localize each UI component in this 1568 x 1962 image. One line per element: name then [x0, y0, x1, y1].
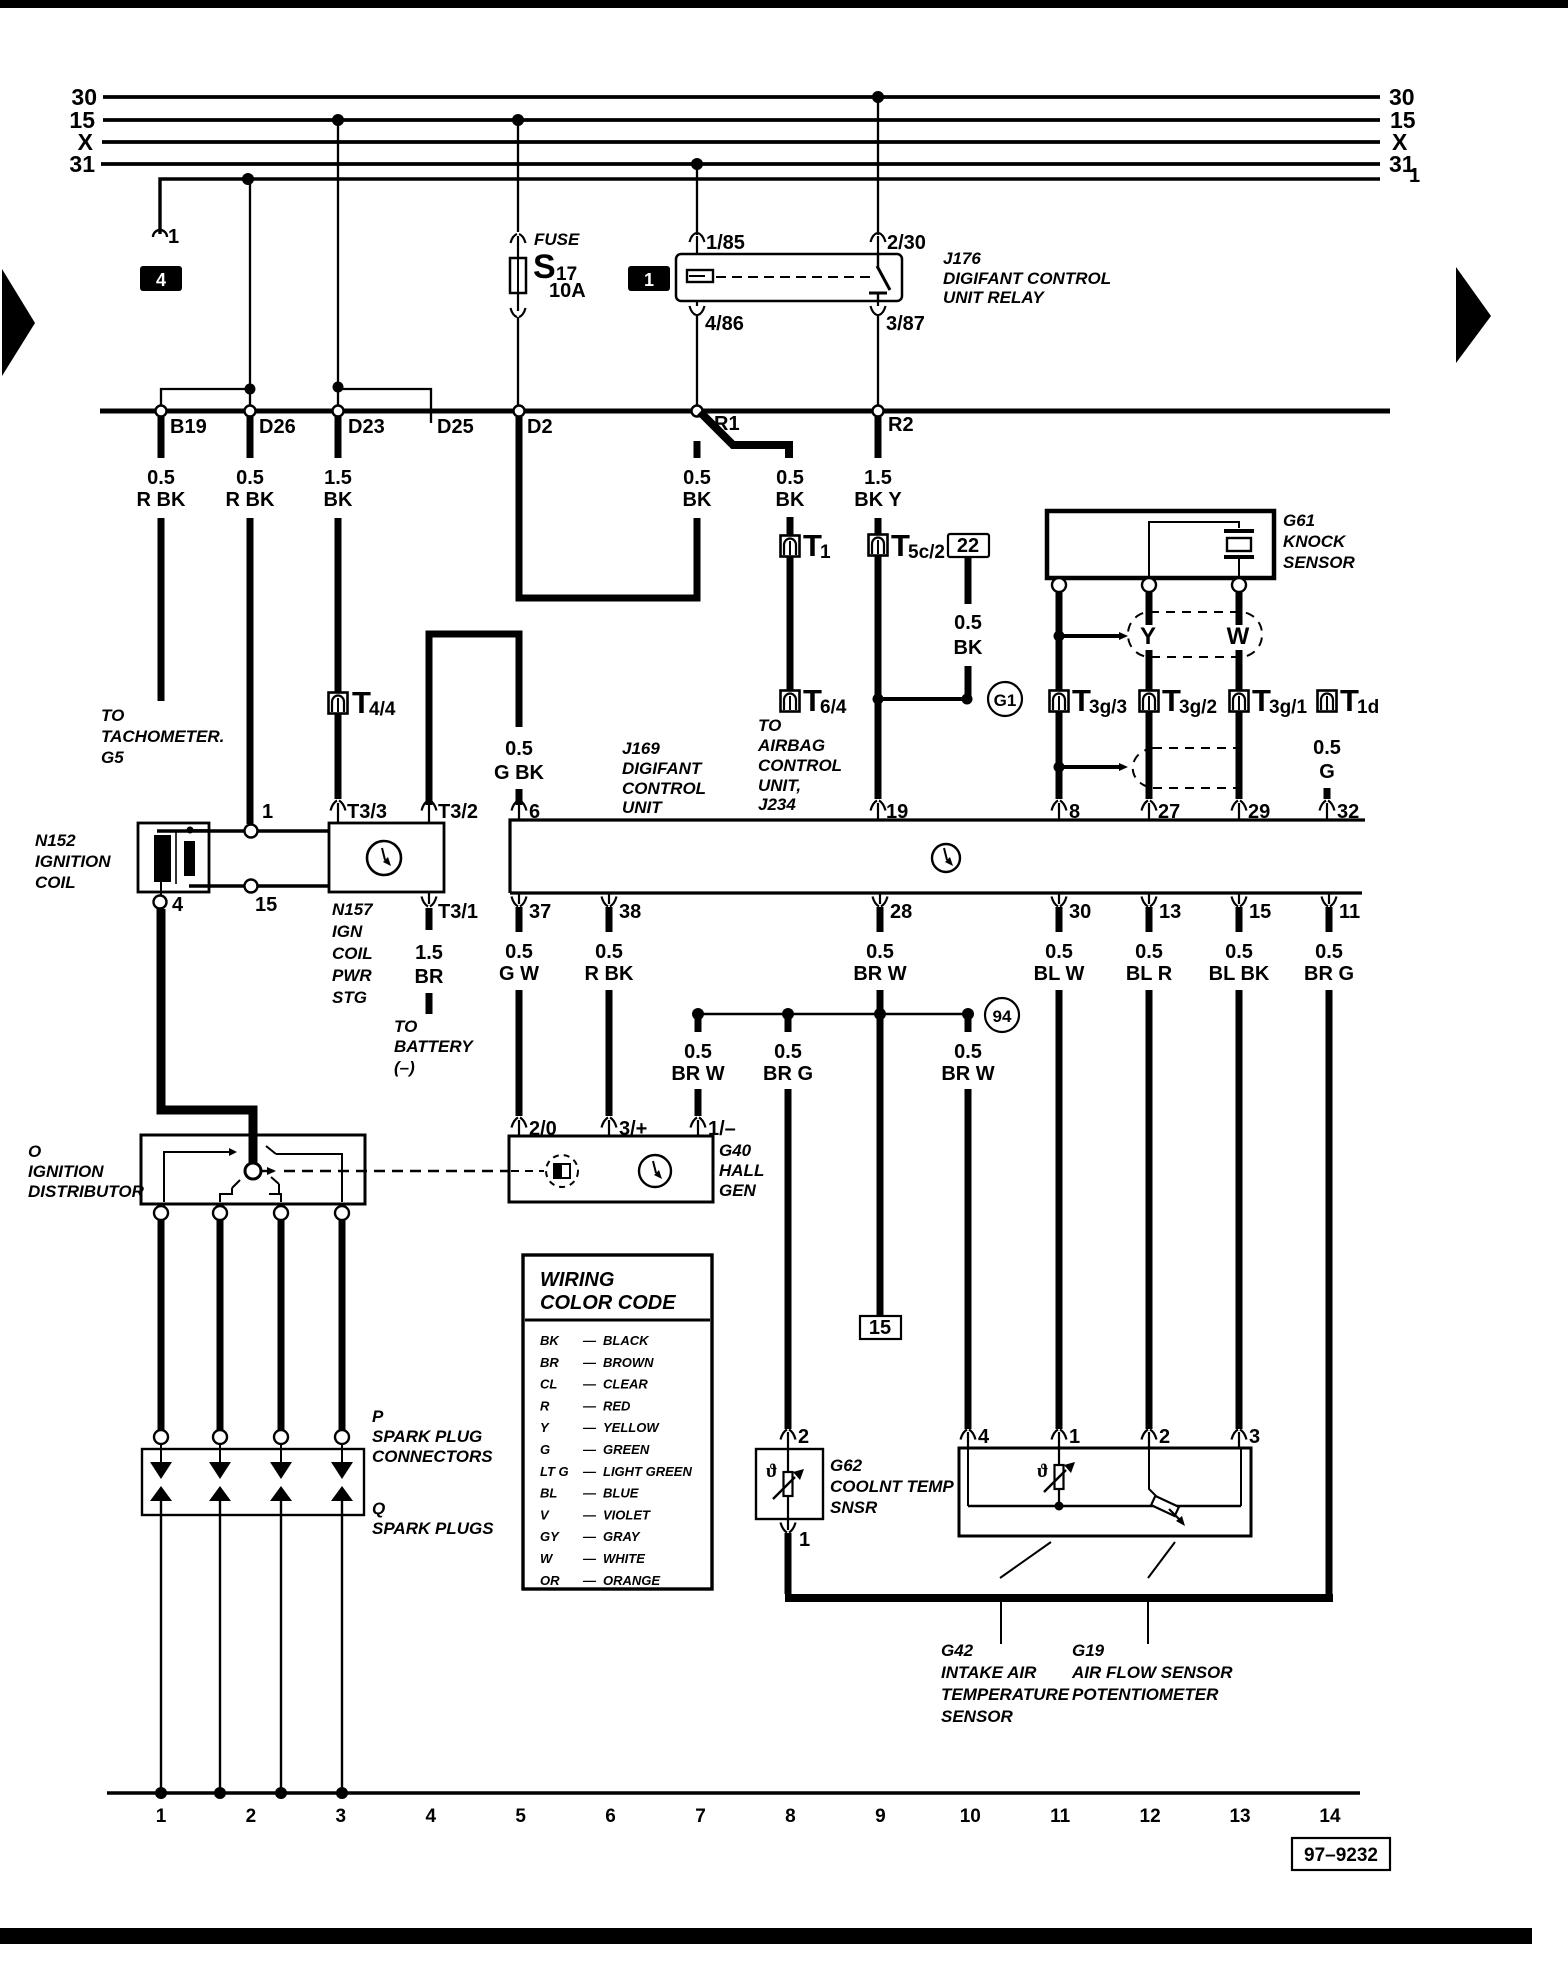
coil primary winding — [154, 835, 171, 882]
svg-text:B19: B19 — [170, 416, 207, 438]
svg-text:P: P — [372, 1407, 384, 1426]
svg-text:32: 32 — [1337, 801, 1359, 823]
svg-text:4: 4 — [425, 1806, 436, 1827]
svg-text:ϑ: ϑ — [1037, 1461, 1048, 1482]
G40 symbol circle — [639, 1155, 671, 1187]
junction on rail 15 at fuse — [512, 114, 524, 126]
track tag 22 — [948, 534, 989, 557]
wire: 94d to G19 4 — [965, 1089, 972, 1429]
wire: T3/1 stub — [426, 908, 433, 930]
svg-text:R: R — [540, 1398, 550, 1413]
wire: T3/1 lower — [426, 993, 433, 1014]
svg-text:1.5: 1.5 — [864, 467, 892, 489]
G62 pin 1 — [781, 1519, 811, 1551]
svg-text:5: 5 — [515, 1806, 526, 1827]
junction shield lower — [1054, 762, 1065, 773]
wire: pin28 to tag15 — [877, 990, 884, 1316]
svg-text:3g/2: 3g/2 — [1179, 697, 1217, 718]
svg-text:11: 11 — [1050, 1806, 1071, 1827]
connector T3g/1 — [1230, 683, 1308, 718]
spark plug connectors P box — [142, 1449, 364, 1515]
svg-text:T3/3: T3/3 — [347, 801, 387, 823]
label 0.5 BK (22) — [954, 612, 983, 659]
terminal D2 — [514, 406, 553, 439]
svg-text:27: 27 — [1158, 801, 1180, 823]
svg-text:YELLOW: YELLOW — [603, 1420, 660, 1435]
leader G19 — [1148, 1542, 1175, 1644]
svg-text:J176: J176 — [943, 249, 981, 268]
svg-text:94: 94 — [993, 1007, 1012, 1026]
svg-text:4/4: 4/4 — [369, 699, 396, 720]
label rail 15 left — [69, 107, 95, 133]
svg-text:N157: N157 — [332, 900, 374, 919]
svg-text:BK: BK — [324, 489, 353, 511]
svg-text:0.5: 0.5 — [505, 738, 533, 760]
svg-text:T3/2: T3/2 — [438, 801, 478, 823]
svg-text:10A: 10A — [549, 280, 586, 302]
svg-text:IGNITION: IGNITION — [35, 852, 111, 871]
relay pin 2/30 — [871, 99, 926, 254]
ECU pin 15 — [1232, 893, 1272, 923]
svg-text:1: 1 — [644, 270, 654, 290]
svg-text:38: 38 — [619, 901, 641, 923]
svg-text:BK: BK — [954, 637, 983, 659]
plug connector arrows d — [331, 1444, 353, 1501]
svg-text:—: — — [582, 1551, 597, 1566]
ECU pin 32 — [1320, 801, 1360, 824]
svg-text:BR G: BR G — [1304, 963, 1354, 985]
junction on rail 31 at relay — [691, 158, 703, 170]
svg-text:0.5: 0.5 — [1313, 737, 1341, 759]
svg-text:0.5: 0.5 — [954, 1041, 982, 1063]
svg-text:29: 29 — [1248, 801, 1270, 823]
label rail 30 left — [71, 84, 97, 110]
distributor inner lead 1 — [164, 1148, 237, 1202]
svg-text:R BK: R BK — [226, 489, 275, 511]
svg-text:GREEN: GREEN — [603, 1442, 650, 1457]
svg-text:BR: BR — [540, 1355, 559, 1370]
svg-text:4: 4 — [156, 270, 166, 290]
terminal R1 — [692, 406, 703, 417]
junction 94-b — [782, 1008, 794, 1032]
svg-text:2/0: 2/0 — [529, 1118, 557, 1140]
ignition distributor O box — [141, 1135, 365, 1204]
svg-text:W: W — [1227, 623, 1250, 650]
junction 94-c — [874, 1008, 886, 1020]
svg-text:GRAY: GRAY — [603, 1529, 641, 1544]
svg-text:V: V — [540, 1507, 550, 1522]
distributor electrode 2 — [220, 1180, 240, 1202]
wire: D23-D25 link — [338, 389, 431, 423]
wire: pin38 to G40 3/+ — [606, 990, 613, 1116]
svg-text:COIL: COIL — [332, 944, 373, 963]
svg-text:11: 11 — [1339, 901, 1360, 923]
wiring color code legend — [523, 1255, 712, 1589]
ECU pin 38 — [602, 893, 642, 923]
label G19 AIR FLOW SENSOR POTENTIOMETER — [1071, 1641, 1233, 1704]
wire: pin11 to ground link — [1326, 990, 1333, 1596]
wire: plug d to track — [341, 1501, 343, 1791]
svg-text:R BK: R BK — [585, 963, 634, 985]
connector T3g/2 — [1140, 683, 1218, 718]
svg-text:5c/2: 5c/2 — [908, 542, 945, 563]
wire: dist-d to plug — [339, 1220, 346, 1430]
coil core — [175, 830, 177, 884]
coil secondary winding — [184, 827, 208, 877]
junction shield upper — [1054, 631, 1065, 642]
svg-text:N152: N152 — [35, 831, 76, 850]
svg-text:—: — — [582, 1442, 597, 1457]
svg-text:9: 9 — [875, 1806, 886, 1827]
svg-text:KNOCK: KNOCK — [1283, 532, 1347, 551]
label S17 — [533, 248, 577, 286]
svg-text:T3/1: T3/1 — [438, 901, 478, 923]
wire: T3g/3 to junction — [1056, 712, 1063, 764]
G19 pin 4 — [961, 1426, 991, 1448]
svg-text:G BK: G BK — [494, 762, 545, 784]
wire: connector strip — [100, 409, 1390, 414]
svg-text:2: 2 — [1159, 1426, 1170, 1448]
terminal coil 1 — [245, 801, 274, 838]
ECU pin 13 — [1142, 893, 1182, 923]
label O IGNITION DISTRIBUTOR — [28, 1142, 145, 1201]
plug connector arrows b — [209, 1444, 231, 1501]
svg-text:J169: J169 — [622, 739, 660, 758]
svg-text:1: 1 — [799, 1529, 810, 1551]
page-link arrow left — [2, 269, 35, 376]
svg-text:UNIT,: UNIT, — [758, 776, 801, 795]
G62 pin 2 — [781, 1426, 810, 1449]
svg-text:1.5: 1.5 — [415, 942, 443, 964]
wire: R2 upper — [875, 518, 882, 534]
distributor rotor — [245, 1163, 261, 1179]
label rail X right — [1392, 129, 1408, 155]
svg-text:AIR FLOW SENSOR: AIR FLOW SENSOR — [1071, 1663, 1233, 1682]
wire: ground run — [785, 1594, 1333, 1602]
label J176 — [943, 249, 1111, 307]
svg-text:22: 22 — [957, 535, 979, 557]
label 0.5 BK (T1) — [776, 467, 805, 511]
svg-text:BL: BL — [540, 1486, 557, 1501]
plug terminal a — [154, 1430, 168, 1444]
current-track tag 4 — [140, 266, 182, 291]
svg-text:0.5: 0.5 — [774, 1041, 802, 1063]
svg-text:FUSE: FUSE — [534, 230, 580, 249]
svg-text:28: 28 — [890, 901, 912, 923]
knock sensor G61 box — [1047, 511, 1274, 578]
svg-text:2: 2 — [246, 1806, 257, 1827]
svg-text:1: 1 — [820, 542, 831, 563]
svg-text:CONTROL: CONTROL — [622, 779, 706, 798]
ECU pin 30 — [1052, 893, 1092, 923]
svg-text:Y: Y — [540, 1420, 550, 1435]
terminal B19 — [156, 406, 207, 439]
label rail 31-1 subscript — [1409, 165, 1420, 187]
svg-text:4: 4 — [978, 1426, 990, 1448]
knock sensor piezo element — [1149, 522, 1254, 576]
distributor terminal b — [213, 1206, 227, 1220]
hall generator G40 box — [509, 1136, 713, 1202]
svg-text:D2: D2 — [527, 416, 553, 438]
svg-text:BL W: BL W — [1034, 963, 1085, 985]
wire: T3/2 to pin6 loop — [429, 634, 519, 805]
G42 thermistor — [1037, 1448, 1075, 1506]
terminal 1 (to rail 31-1) — [153, 226, 179, 248]
label N157 IGN COIL PWR STG — [332, 900, 374, 1007]
connector T1 — [781, 528, 832, 563]
fuse S17 — [510, 234, 526, 317]
svg-text:G5: G5 — [101, 748, 124, 767]
G19 pin 3 — [1232, 1426, 1261, 1448]
wire: pin30 to G19-1 — [1056, 990, 1063, 1429]
label 1.5 BR — [415, 942, 444, 988]
svg-text:30: 30 — [1069, 901, 1091, 923]
junction R2/G1 — [873, 694, 884, 705]
terminal G61-1 — [1052, 578, 1066, 592]
junction B19 link at D26 — [245, 384, 256, 395]
label rail 31 right — [1389, 151, 1415, 177]
svg-text:BR W: BR W — [941, 1063, 994, 1085]
ground ref 94 — [985, 998, 1019, 1032]
shield oval lower — [1133, 748, 1247, 788]
svg-text:D25: D25 — [437, 416, 474, 438]
air flow sensor box — [959, 1448, 1251, 1536]
svg-text:0.5: 0.5 — [1045, 941, 1073, 963]
ECU pin 8 — [1052, 801, 1081, 824]
svg-text:0.5: 0.5 — [1225, 941, 1253, 963]
wire: shield arrow lower — [1059, 763, 1128, 771]
svg-text:SPARK PLUGS: SPARK PLUGS — [372, 1519, 494, 1538]
svg-text:1: 1 — [262, 801, 273, 823]
svg-text:8: 8 — [785, 1806, 796, 1827]
wire: T1 to T6/4 — [787, 557, 794, 691]
label G62 COOLNT TEMP SNSR — [830, 1456, 954, 1517]
distributor terminal a — [154, 1206, 168, 1220]
wire: coil4 to distributor — [161, 909, 253, 1163]
svg-text:COOLNT TEMP: COOLNT TEMP — [830, 1477, 954, 1496]
svg-text:14: 14 — [1319, 1806, 1341, 1827]
svg-text:RED: RED — [603, 1398, 631, 1413]
G40 pin 3/+ — [602, 1118, 648, 1141]
svg-text:BATTERY: BATTERY — [394, 1037, 474, 1056]
svg-text:G W: G W — [499, 963, 539, 985]
svg-text:IGNITION: IGNITION — [28, 1162, 104, 1181]
wire: D23 upper — [335, 518, 342, 693]
svg-text:6: 6 — [529, 801, 540, 823]
plug terminal c — [274, 1430, 288, 1444]
label 0.5 BR G (b) — [763, 1041, 813, 1085]
wire: rail15 to fuse — [517, 122, 519, 232]
wire: G61-2 lower — [1146, 650, 1153, 690]
wire: label to T1 — [787, 517, 794, 536]
svg-text:—: — — [582, 1420, 597, 1435]
wire: pin11 stub — [1326, 907, 1333, 932]
terminal D23 — [333, 406, 385, 439]
svg-text:WIRING: WIRING — [540, 1269, 614, 1291]
svg-text:VIOLET: VIOLET — [603, 1507, 651, 1522]
svg-text:—: — — [582, 1377, 597, 1392]
wire: R2 to pin19 — [875, 699, 882, 799]
svg-text:LT G: LT G — [540, 1464, 569, 1479]
relay pin 3/87 — [871, 301, 925, 406]
distributor terminal c — [274, 1206, 288, 1220]
wire: 94a to G40 1/- — [695, 1089, 702, 1116]
wire: plug a to track — [160, 1501, 162, 1791]
svg-text:IGN: IGN — [332, 922, 363, 941]
relay J176 box — [676, 254, 902, 301]
svg-text:SPARK PLUG: SPARK PLUG — [372, 1427, 482, 1446]
svg-text:G42: G42 — [941, 1641, 974, 1660]
svg-text:PWR: PWR — [332, 966, 372, 985]
svg-text:BR W: BR W — [671, 1063, 724, 1085]
svg-text:BL R: BL R — [1126, 963, 1173, 985]
svg-text:HALL: HALL — [719, 1161, 764, 1180]
distributor electrode 3 — [269, 1177, 281, 1202]
svg-text:3/+: 3/+ — [619, 1118, 647, 1140]
junction 94-a — [692, 1008, 704, 1032]
svg-text:1d: 1d — [1357, 697, 1379, 718]
svg-text:8: 8 — [1069, 801, 1080, 823]
wire: rail 30 — [103, 95, 1380, 99]
svg-text:ORANGE: ORANGE — [603, 1573, 660, 1588]
junction D23 link — [333, 382, 344, 393]
wire: plug b to track — [219, 1501, 221, 1791]
wire: T4/4 to T3/3 — [335, 714, 342, 799]
wire: B19 to tachometer — [158, 518, 165, 701]
svg-text:BR G: BR G — [763, 1063, 813, 1085]
svg-text:G: G — [1319, 761, 1335, 783]
wire: pin13 to G19-2 — [1146, 990, 1153, 1429]
G19 pin3 internal — [1240, 1448, 1242, 1506]
svg-text:15: 15 — [1249, 901, 1271, 923]
wire: 22 stub — [965, 558, 972, 604]
wire: 94b to G62 2 — [785, 1089, 792, 1429]
label rail 30 right — [1389, 84, 1415, 110]
label 0.5 BR W (d) — [941, 1041, 994, 1085]
ECU pin 37 — [512, 893, 552, 923]
wire: B19 link — [161, 389, 248, 409]
page-link arrow right — [1456, 267, 1491, 363]
N157 pin T3/2 — [422, 801, 479, 824]
svg-text:DIGIFANT: DIGIFANT — [622, 759, 703, 778]
ECU symbol circle — [932, 844, 960, 872]
svg-text:0.5: 0.5 — [1135, 941, 1163, 963]
svg-text:0.5: 0.5 — [147, 467, 175, 489]
svg-text:6/4: 6/4 — [820, 697, 847, 718]
svg-text:ϑ: ϑ — [766, 1461, 777, 1482]
wire: pin37 to G40 2/0 — [516, 990, 523, 1116]
svg-text:OR: OR — [540, 1573, 560, 1588]
G40 pin 1/- — [691, 1118, 736, 1141]
relay coil — [687, 270, 713, 282]
svg-text:0.5: 0.5 — [236, 467, 264, 489]
wire: T3g/1 to pin29 — [1236, 712, 1243, 799]
track numbers 1-14 — [156, 1806, 1341, 1827]
junction 94-d — [962, 1008, 974, 1032]
svg-text:Y: Y — [1140, 623, 1156, 650]
svg-text:15: 15 — [255, 894, 277, 916]
junction 0.5BK at G1 line — [962, 694, 973, 705]
svg-text:G61: G61 — [1283, 511, 1315, 530]
relay dashed link — [716, 276, 874, 278]
wire: B19 stub — [158, 416, 165, 458]
svg-text:CONNECTORS: CONNECTORS — [372, 1447, 493, 1466]
ECU pin 19 — [871, 801, 909, 824]
wire: D23 stub — [335, 416, 342, 458]
svg-text:—: — — [582, 1464, 597, 1479]
track junction b — [214, 1787, 226, 1799]
air sensor internal bus — [968, 1448, 1241, 1511]
svg-text:6: 6 — [605, 1806, 616, 1827]
svg-text:BR W: BR W — [853, 963, 906, 985]
svg-text:0.5: 0.5 — [1315, 941, 1343, 963]
svg-text:D23: D23 — [348, 416, 385, 438]
svg-text:0.5: 0.5 — [595, 941, 623, 963]
wire: pin38 stub — [606, 907, 613, 932]
svg-text:—: — — [582, 1486, 597, 1501]
relay switch — [869, 254, 890, 301]
scan artifact: top edge bar — [0, 0, 1568, 8]
svg-text:—: — — [582, 1529, 597, 1544]
svg-text:0.5: 0.5 — [866, 941, 894, 963]
terminal coil 15 — [245, 880, 278, 917]
G19 pin 1 — [1052, 1426, 1081, 1448]
svg-text:J234: J234 — [758, 795, 796, 814]
label 0.5 BL W — [1034, 941, 1085, 985]
wire: rail 15 — [103, 118, 1380, 122]
plug terminal d — [335, 1430, 349, 1444]
G19 pin 2 — [1142, 1426, 1171, 1448]
terminal D26 — [245, 406, 296, 439]
G40 hall element — [511, 1155, 578, 1187]
terminal G61-3 — [1232, 578, 1246, 592]
svg-text:G40: G40 — [719, 1141, 752, 1160]
wire: R1 branch — [700, 412, 789, 458]
svg-text:3g/1: 3g/1 — [1269, 697, 1307, 718]
wire: G61-2 upper — [1146, 592, 1153, 625]
svg-text:BROWN: BROWN — [603, 1355, 654, 1370]
label 0.5 BR G (11) — [1304, 941, 1354, 985]
svg-text:1: 1 — [1069, 1426, 1080, 1448]
label 0.5 BL R — [1126, 941, 1173, 985]
svg-text:G62: G62 — [830, 1456, 863, 1475]
svg-text:1.5: 1.5 — [324, 467, 352, 489]
terminal D25 label — [437, 416, 474, 438]
svg-text:BL BK: BL BK — [1209, 963, 1270, 985]
connector T5c/2 — [869, 528, 945, 563]
label G42 INTAKE AIR TEMPERATURE SENSOR — [941, 1641, 1070, 1726]
svg-text:31: 31 — [69, 151, 95, 177]
label G61 KNOCK SENSOR — [1283, 511, 1356, 572]
svg-text:BK: BK — [683, 489, 712, 511]
wire: GBK lower — [516, 789, 523, 805]
terminal G61-2 — [1142, 578, 1156, 592]
wire: rail X — [102, 140, 1380, 144]
svg-text:37: 37 — [529, 901, 551, 923]
svg-text:CLEAR: CLEAR — [603, 1377, 648, 1392]
leader G42 — [1000, 1542, 1051, 1644]
svg-text:2/30: 2/30 — [887, 232, 926, 254]
svg-text:13: 13 — [1229, 1806, 1250, 1827]
wire: pin13 stub — [1146, 907, 1153, 932]
track junction d — [336, 1787, 348, 1799]
wire: G61-1 to T3g/3 — [1056, 636, 1063, 690]
scan artifact: bottom edge bar — [0, 1928, 1532, 1944]
label rail 31 left — [69, 151, 95, 177]
wire: D23 drop — [337, 122, 339, 409]
svg-text:BK Y: BK Y — [854, 489, 902, 511]
svg-text:4: 4 — [172, 894, 184, 916]
